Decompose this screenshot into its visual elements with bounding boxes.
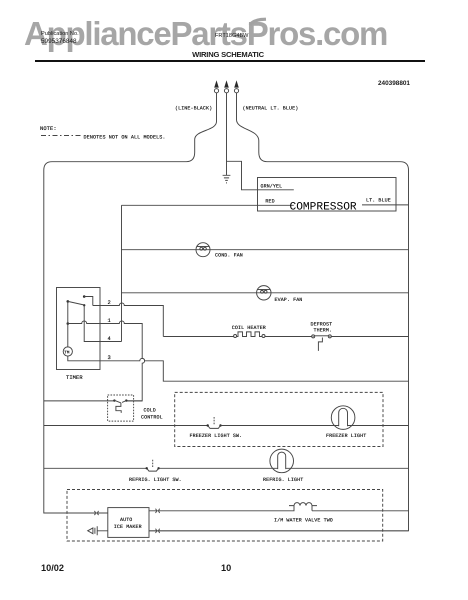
svg-text:THERM.: THERM. [314,327,333,333]
svg-text:COIL HEATER: COIL HEATER [232,325,266,331]
svg-text:COLD: COLD [144,408,156,414]
svg-text:3: 3 [108,355,111,361]
svg-text:GRN/YEL: GRN/YEL [261,183,283,189]
svg-text:NOTE:: NOTE: [40,126,57,132]
svg-text:FREEZER LIGHT SW.: FREEZER LIGHT SW. [190,433,243,439]
svg-text:4: 4 [108,336,111,342]
svg-text:DENOTES NOT ON ALL MODELS.: DENOTES NOT ON ALL MODELS. [84,135,166,141]
svg-text:COMPRESSOR: COMPRESSOR [290,201,357,213]
svg-text:TM: TM [64,350,70,355]
svg-text:LT. BLUE: LT. BLUE [366,198,391,204]
svg-text:AUTO: AUTO [120,517,132,523]
svg-text:FREEZER LIGHT: FREEZER LIGHT [326,433,366,439]
svg-text:REFRIG. LIGHT: REFRIG. LIGHT [263,477,303,483]
svg-text:2: 2 [108,300,111,306]
svg-text:EVAP. FAN: EVAP. FAN [275,297,303,303]
svg-text:CONTROL: CONTROL [141,415,163,421]
svg-text:(NEUTRAL LT. BLUE): (NEUTRAL LT. BLUE) [243,106,299,112]
svg-text:REFRIG. LIGHT SW.: REFRIG. LIGHT SW. [129,477,182,483]
svg-text:(LINE-BLACK): (LINE-BLACK) [175,106,212,112]
svg-text:RED: RED [265,199,274,205]
svg-text:COND. FAN: COND. FAN [215,253,243,259]
svg-text:I/M WATER VALVE TWO: I/M WATER VALVE TWO [274,517,333,523]
svg-text:1: 1 [108,318,111,324]
svg-text:TIMER: TIMER [66,375,83,381]
svg-text:ICE MAKER: ICE MAKER [114,524,142,530]
